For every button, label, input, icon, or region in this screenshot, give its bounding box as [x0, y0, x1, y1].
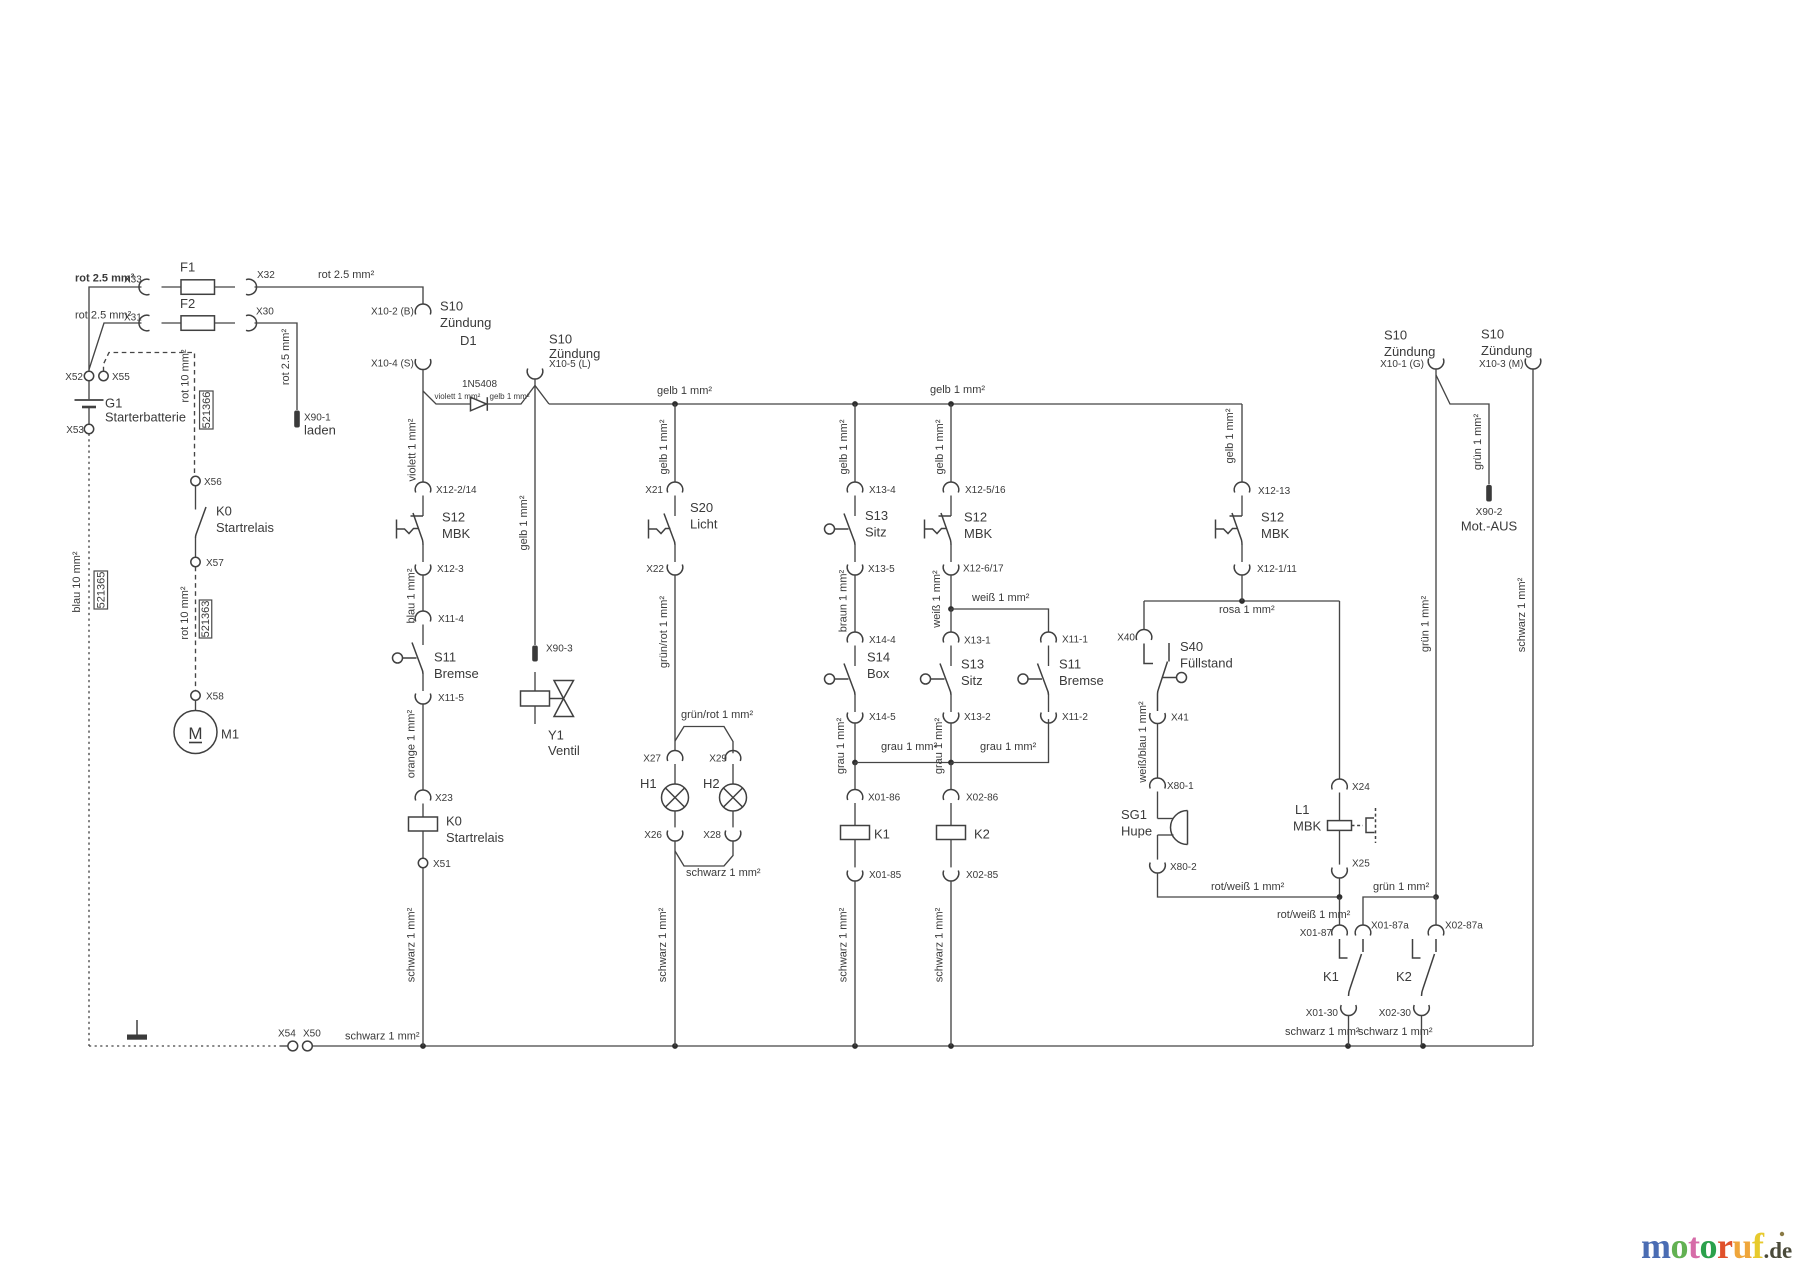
label 521363 — [199, 600, 212, 638]
connector X22 — [667, 565, 683, 576]
connector X58 — [191, 691, 200, 700]
connector X90-1 laden (charge plug) — [294, 411, 300, 428]
svg-text:X12-5/16: X12-5/16 — [965, 485, 1006, 496]
switch blade — [844, 514, 855, 546]
horn SG1 Hupe — [1157, 792, 1159, 819]
wire branch to X29 — [674, 741, 676, 751]
wire grau 1 mm2 — [854, 723, 856, 762]
svg-text:X54: X54 — [278, 1029, 296, 1040]
connector X12-1/11 — [1234, 565, 1250, 576]
svg-text:Sitz: Sitz — [961, 673, 983, 688]
wire — [950, 496, 952, 517]
svg-text:X22: X22 — [646, 564, 664, 575]
svg-text:schwarz 1 mm²: schwarz 1 mm² — [345, 1031, 420, 1043]
wire gelb 1 mm2 to S13 — [854, 404, 856, 482]
svg-text:MBK: MBK — [442, 526, 471, 541]
lamp L1 MBK (indicator) — [1339, 793, 1341, 821]
solenoid valve Y1 Ventil — [521, 691, 550, 706]
wire schwarz 1 mm2 to ground bus — [950, 881, 952, 1046]
svg-text:Licht: Licht — [690, 517, 718, 532]
junction — [1239, 598, 1245, 604]
actuator plunger — [825, 524, 835, 534]
svg-text:laden: laden — [304, 423, 336, 438]
svg-text:S13: S13 — [865, 508, 888, 523]
connector X90-3 — [532, 646, 538, 662]
svg-text:X24: X24 — [1352, 782, 1370, 793]
relay contact K2 — [1413, 939, 1421, 958]
actuator plunger — [1018, 674, 1028, 684]
wire rot/weiss 1 mm2 from horn to K1 87 — [1158, 873, 1340, 897]
connector X51 — [418, 858, 427, 867]
svg-text:X25: X25 — [1352, 859, 1370, 870]
svg-text:weiß/blau 1 mm²: weiß/blau 1 mm² — [1137, 701, 1149, 784]
svg-text:Bremse: Bremse — [434, 666, 479, 681]
wire to junction — [1339, 878, 1341, 897]
svg-text:gelb 1 mm²: gelb 1 mm² — [658, 419, 670, 474]
switch blade — [940, 664, 951, 696]
svg-text:X52: X52 — [65, 372, 83, 383]
wire schwarz 1 mm2 from X28 joining X26 branch — [675, 841, 733, 866]
svg-text:X11-4: X11-4 — [438, 614, 464, 625]
svg-text:X10-1 (G): X10-1 (G) — [1380, 359, 1424, 370]
wire — [950, 646, 952, 667]
svg-text:X30: X30 — [256, 307, 274, 318]
svg-text:X11-2: X11-2 — [1062, 712, 1088, 723]
svg-text:rot 2.5 mm²: rot 2.5 mm² — [318, 269, 375, 281]
svg-text:X01-30: X01-30 — [1306, 1008, 1339, 1019]
connector X25 — [1332, 868, 1348, 879]
svg-text:X21: X21 — [645, 485, 663, 496]
svg-text:X02-87a: X02-87a — [1445, 921, 1483, 932]
wire rot 10 mm2 (dashed) from X55 to starter relay X56 — [104, 353, 195, 475]
wire blau 10 mm2 battery minus (dashed) down to ground bus — [88, 434, 90, 1046]
wire rot 10 mm2 (dashed) from X57 to starter motor X58 — [195, 567, 197, 691]
junction — [420, 1043, 426, 1049]
svg-text:Füllstand: Füllstand — [1180, 656, 1233, 671]
svg-text:rot/weiß 1 mm²: rot/weiß 1 mm² — [1211, 881, 1285, 893]
svg-text:X01-86: X01-86 — [868, 793, 901, 804]
svg-text:X31: X31 — [124, 313, 142, 324]
connector X10-1 (G) — [1428, 359, 1444, 370]
svg-text:X14-4: X14-4 — [869, 635, 896, 646]
connector X11-4 — [415, 611, 431, 622]
svg-text:X13-4: X13-4 — [869, 485, 896, 496]
svg-text:schwarz 1 mm²: schwarz 1 mm² — [934, 907, 946, 982]
svg-text:X12-6/17: X12-6/17 — [963, 564, 1004, 575]
battery G1 Starterbatterie — [84, 371, 93, 380]
svg-text:gelb 1 mm²: gelb 1 mm² — [657, 385, 712, 397]
connector X02-30 — [1414, 1005, 1430, 1016]
svg-text:grün 1 mm²: grün 1 mm² — [1373, 881, 1430, 893]
svg-text:521366: 521366 — [201, 392, 213, 429]
fixed contact stub — [1230, 515, 1243, 517]
connector X13-5 — [847, 565, 863, 576]
svg-text:Zündung: Zündung — [549, 346, 600, 361]
svg-text:weiß 1 mm²: weiß 1 mm² — [931, 570, 943, 629]
junction — [672, 1043, 678, 1049]
svg-text:X02-85: X02-85 — [966, 870, 999, 881]
connector X57 — [191, 557, 200, 566]
svg-text:S40: S40 — [1180, 639, 1203, 654]
svg-text:X01-87: X01-87 — [1300, 928, 1333, 939]
svg-text:X33: X33 — [124, 275, 142, 286]
connector X10-4 (S) from ignition switch S10 — [415, 359, 431, 370]
svg-text:schwarz 1 mm²: schwarz 1 mm² — [406, 907, 418, 982]
connector X23 — [415, 790, 431, 801]
wire schwarz 1 mm2 to ground bus — [422, 868, 424, 1046]
relay contact K0 Startrelais — [195, 486, 197, 510]
svg-text:S12: S12 — [964, 510, 987, 525]
actuator — [396, 520, 398, 539]
svg-text:S12: S12 — [1261, 510, 1284, 525]
svg-text:X12-3: X12-3 — [437, 564, 464, 575]
wire — [1048, 646, 1050, 667]
connector X24 — [1332, 779, 1348, 790]
wire gruen 1 mm2 branch to Mot.-AUS — [1435, 369, 1437, 375]
svg-text:521363: 521363 — [200, 601, 212, 638]
svg-text:F2: F2 — [180, 296, 195, 311]
svg-text:X80-1: X80-1 — [1167, 781, 1194, 792]
connector X01-87a — [1355, 925, 1371, 936]
svg-text:X11-5: X11-5 — [438, 693, 464, 704]
svg-text:schwarz 1 mm²: schwarz 1 mm² — [838, 907, 850, 982]
connector X90-2 Mot.-AUS — [1486, 485, 1492, 502]
wire weiss/blau 1 mm2 — [1157, 724, 1159, 778]
svg-text:Sitz: Sitz — [865, 525, 887, 540]
wire gruen 1 mm2 from X10-1 down — [1435, 375, 1437, 897]
svg-text:1N5408: 1N5408 — [462, 379, 497, 390]
wire — [674, 545, 676, 562]
wire to valve Y1 — [534, 672, 536, 691]
junction — [948, 760, 954, 766]
wire rot/weiss 1 mm2 down to X01-87 — [1339, 897, 1341, 925]
connector X31 — [139, 315, 150, 331]
svg-text:M1: M1 — [221, 727, 239, 742]
junction — [948, 1043, 954, 1049]
fuse F1 — [162, 286, 182, 288]
svg-text:X80-2: X80-2 — [1170, 862, 1197, 873]
svg-text:rot/weiß 1 mm²: rot/weiß 1 mm² — [1277, 909, 1351, 921]
relay coil K1 — [854, 803, 856, 826]
connector X56 — [191, 476, 200, 485]
connector X27 — [667, 750, 683, 761]
svg-text:Bremse: Bremse — [1059, 673, 1104, 688]
junction — [852, 760, 858, 766]
junction rot/weiss — [1337, 894, 1343, 900]
connector X29 — [725, 750, 741, 761]
switch S11 Bremse (brake switch) — [422, 625, 424, 646]
wire rosa 1 mm2 from S12 MBK to S40 and L1 — [1144, 600, 1340, 602]
connector X53 — [84, 424, 93, 433]
connector X01-30 — [1341, 1005, 1357, 1016]
actuator plunger — [825, 674, 835, 684]
svg-text:X13-2: X13-2 — [964, 712, 991, 723]
wire schwarz 1 mm2 to ground bus — [674, 841, 676, 1046]
junction — [948, 401, 954, 407]
svg-text:grün/rot 1 mm²: grün/rot 1 mm² — [658, 596, 670, 668]
wire to K2 coil — [950, 763, 952, 790]
svg-text:X29: X29 — [709, 754, 727, 765]
fuse F2 — [162, 322, 182, 324]
svg-text:X12-13: X12-13 — [1258, 486, 1291, 497]
svg-text:Startrelais: Startrelais — [446, 830, 504, 845]
wire schwarz 1 mm2 to ground bus — [1421, 1016, 1423, 1046]
svg-text:Mot.-AUS: Mot.-AUS — [1461, 519, 1518, 534]
connector X14-4 — [847, 632, 863, 643]
wire schwarz 1 mm2 to ground bus — [1348, 1016, 1350, 1046]
wire — [1241, 496, 1243, 517]
svg-text:S20: S20 — [690, 500, 713, 515]
svg-text:grau 1 mm²: grau 1 mm² — [835, 718, 847, 775]
svg-text:grau 1 mm²: grau 1 mm² — [881, 741, 938, 753]
wire rot 2.5 mm2 from battery X52 diagonal up to fuse F2 row — [89, 323, 142, 370]
connector X32 — [246, 279, 257, 295]
svg-text:S10: S10 — [1481, 327, 1504, 342]
junction — [1420, 1043, 1426, 1049]
wire rosa 1 mm2 corner down to X24 — [1339, 601, 1341, 779]
switch blade — [1232, 513, 1242, 545]
relay contact K1 — [1340, 939, 1348, 958]
switch blade — [1038, 664, 1049, 696]
actuator — [648, 520, 650, 539]
svg-text:X28: X28 — [703, 830, 721, 841]
switch blade — [844, 664, 855, 696]
connector X10-5 (L) ignition switch — [527, 369, 543, 380]
switch S40 Fuellstand (fill level) — [1144, 644, 1153, 664]
svg-text:M: M — [188, 724, 202, 743]
junction — [1345, 1043, 1351, 1049]
svg-text:X02-86: X02-86 — [966, 793, 999, 804]
connector X12-2/14 — [415, 482, 431, 493]
svg-text:X41: X41 — [1171, 713, 1189, 724]
svg-text:K1: K1 — [874, 827, 890, 842]
svg-text:S12: S12 — [442, 510, 465, 525]
svg-text:S10: S10 — [1384, 328, 1407, 343]
svg-text:X56: X56 — [204, 477, 222, 488]
connector X01-85 — [847, 871, 863, 882]
svg-text:H1: H1 — [640, 776, 657, 791]
wire — [1241, 545, 1243, 562]
svg-text:rot 10 mm²: rot 10 mm² — [179, 586, 191, 640]
wire — [854, 545, 856, 562]
svg-text:violett 1 mm²: violett 1 mm² — [435, 392, 481, 401]
junction — [948, 606, 954, 612]
connector X12-6/17 — [943, 565, 959, 576]
ground symbol — [136, 1020, 138, 1035]
svg-text:521365: 521365 — [95, 572, 107, 609]
wire — [422, 496, 424, 517]
connector X41 — [1150, 713, 1166, 724]
svg-text:X32: X32 — [257, 270, 275, 281]
wire grau 1 mm2 over to S11 Bremse X11-2 — [951, 719, 1049, 762]
svg-text:X02-30: X02-30 — [1379, 1008, 1412, 1019]
wire orange 1 mm2 — [422, 704, 424, 790]
svg-text:rot 2.5 mm²: rot 2.5 mm² — [280, 329, 292, 386]
lamp H2 — [732, 764, 734, 784]
connector X01-87 — [1332, 925, 1348, 936]
svg-text:gelb 1 mm²: gelb 1 mm² — [838, 419, 850, 474]
wire schwarz 1 mm2 from X10-3 down to ground bus — [1532, 369, 1534, 1046]
connector X02-87a — [1428, 925, 1444, 936]
svg-text:orange 1 mm²: orange 1 mm² — [406, 709, 418, 778]
svg-text:blau 10 mm²: blau 10 mm² — [71, 551, 83, 612]
wire — [1048, 695, 1050, 712]
wire weiss 1 mm2 over to S11 Bremse branch — [951, 609, 1049, 632]
wire gelb 1 mm2 distribution bus — [549, 403, 1242, 405]
wire to X13-1 — [950, 609, 952, 632]
svg-text:Starterbatterie: Starterbatterie — [105, 410, 186, 425]
svg-text:D1: D1 — [460, 333, 477, 348]
svg-text:X11-1: X11-1 — [1062, 635, 1088, 646]
junction — [852, 401, 858, 407]
actuator — [1215, 520, 1217, 539]
svg-text:X01-85: X01-85 — [869, 870, 902, 881]
svg-text:X40: X40 — [1117, 633, 1135, 644]
wire grau 1 mm2 — [950, 723, 952, 762]
connector X01-86 — [847, 789, 863, 800]
wire gruen down to X02-87a — [1435, 897, 1437, 925]
connector X12-13 — [1234, 482, 1250, 493]
connector X13-4 — [847, 482, 863, 493]
wire rot 2.5 mm2 from battery X52 up to fuse F1 row — [89, 287, 142, 371]
ground bus dotted segment — [89, 1045, 280, 1047]
svg-text:schwarz 1 mm²: schwarz 1 mm² — [686, 867, 761, 879]
connector X30 — [246, 315, 257, 331]
junction — [672, 401, 678, 407]
connector X11-1 — [1041, 632, 1057, 643]
svg-text:grau 1 mm²: grau 1 mm² — [980, 741, 1037, 753]
connector X11-2 — [1041, 713, 1057, 724]
connector X10-3 (M) — [1525, 359, 1541, 370]
svg-text:grün 1 mm²: grün 1 mm² — [1472, 414, 1484, 471]
svg-text:K2: K2 — [1396, 969, 1412, 984]
svg-text:K2: K2 — [974, 827, 990, 842]
wire — [854, 695, 856, 712]
connector X21 — [667, 482, 683, 493]
svg-text:Y1: Y1 — [548, 728, 564, 743]
relay coil K2 — [950, 803, 952, 826]
junction gruen — [1433, 894, 1439, 900]
wire schwarz 1 mm2 ground bus — [312, 1045, 1533, 1047]
svg-text:X12-2/14: X12-2/14 — [436, 485, 477, 496]
wire to K1 coil — [854, 763, 856, 790]
svg-text:X13-1: X13-1 — [964, 636, 991, 647]
wire gelb 1 mm2 down to valve connector X90-3 — [534, 386, 536, 646]
svg-text:SG1: SG1 — [1121, 807, 1147, 822]
connector X26 — [667, 831, 683, 842]
svg-text:violett 1 mm²: violett 1 mm² — [407, 418, 419, 481]
label 521365 — [94, 571, 108, 609]
svg-text:X10-2 (B): X10-2 (B) — [371, 307, 414, 318]
connector X80-1 — [1150, 778, 1166, 789]
actuator plunger — [921, 674, 931, 684]
wire rot 2.5 mm2 from X30 down to charge connector X90-1 — [255, 323, 298, 410]
switch blade — [664, 514, 675, 546]
wire braun 1 mm2 — [854, 575, 856, 632]
svg-text:rosa 1 mm²: rosa 1 mm² — [1219, 604, 1275, 616]
svg-text:X13-5: X13-5 — [868, 564, 895, 575]
svg-text:gelb 1 mm²: gelb 1 mm² — [518, 495, 530, 550]
svg-text:grau 1 mm²: grau 1 mm² — [933, 718, 945, 775]
svg-text:gelb 1 mm²: gelb 1 mm² — [1224, 408, 1236, 463]
wire — [674, 496, 676, 517]
junction — [852, 1043, 858, 1049]
svg-text:S11: S11 — [1059, 657, 1081, 672]
svg-text:gelb 1 mm²: gelb 1 mm² — [930, 384, 985, 396]
connector X54 — [288, 1041, 298, 1051]
svg-text:X51: X51 — [433, 859, 451, 870]
wire weiss 1 mm2 — [950, 575, 952, 609]
connector X02-85 — [943, 871, 959, 882]
svg-text:rot 10 mm²: rot 10 mm² — [180, 349, 192, 403]
connector X10-2 (B) to ignition switch S10 — [415, 304, 431, 315]
relay coil K0 Startrelais — [422, 804, 424, 818]
wire rosa 1 mm2 down to junction — [1241, 575, 1243, 601]
svg-text:motoruf.de: motoruf.de — [1641, 1226, 1792, 1266]
svg-text:schwarz 1 mm²: schwarz 1 mm² — [1516, 577, 1528, 652]
svg-text:K1: K1 — [1323, 969, 1339, 984]
svg-text:schwarz 1 mm²: schwarz 1 mm² — [1285, 1026, 1360, 1038]
connector X50 — [303, 1041, 313, 1051]
svg-text:S10: S10 — [440, 299, 463, 314]
svg-text:X26: X26 — [644, 830, 662, 841]
armature link dashed — [1352, 825, 1364, 827]
connector X12-5/16 — [943, 482, 959, 493]
svg-text:schwarz 1 mm²: schwarz 1 mm² — [657, 907, 669, 982]
motoruf.de logo — [1780, 1232, 1784, 1236]
svg-text:gelb 1 mm²: gelb 1 mm² — [934, 419, 946, 474]
svg-text:L1: L1 — [1295, 802, 1309, 817]
svg-text:weiß 1 mm²: weiß 1 mm² — [971, 592, 1030, 604]
svg-text:X58: X58 — [206, 692, 224, 703]
starter motor M1 — [195, 700, 197, 710]
svg-text:G1: G1 — [105, 396, 122, 411]
svg-text:X53: X53 — [66, 425, 84, 436]
switch blade — [941, 513, 951, 545]
svg-text:X90-3: X90-3 — [546, 644, 573, 655]
svg-text:S10: S10 — [549, 332, 572, 347]
svg-text:braun 1 mm²: braun 1 mm² — [838, 569, 850, 632]
wire violett 1 mm2 down to S12 — [422, 370, 424, 482]
svg-text:Zündung: Zündung — [440, 315, 491, 330]
wire gelb 1 mm2 from bus down to S12 — [1241, 404, 1243, 482]
label 521366 — [200, 391, 214, 429]
wire — [950, 545, 952, 562]
wire grau 1 mm2 to X02 branch — [855, 762, 951, 764]
wire gelb 1 mm2 to S20 — [674, 404, 676, 482]
svg-text:MBK: MBK — [1261, 526, 1290, 541]
connector X13-2 — [943, 713, 959, 724]
svg-text:Ventil: Ventil — [548, 743, 580, 758]
svg-text:X10-3 (M): X10-3 (M) — [1479, 359, 1523, 370]
connector X13-1 — [943, 632, 959, 643]
svg-text:K0: K0 — [216, 504, 232, 519]
svg-text:X57: X57 — [206, 558, 224, 569]
svg-text:Hupe: Hupe — [1121, 824, 1152, 839]
svg-text:S11: S11 — [434, 650, 456, 665]
wire — [854, 496, 856, 517]
svg-text:S14: S14 — [867, 650, 890, 665]
svg-text:X01-87a: X01-87a — [1371, 921, 1409, 932]
wire violett 1 mm2 tap to diode D1 — [423, 391, 471, 404]
wire — [950, 695, 952, 712]
diode D1 1N5408 — [471, 397, 487, 411]
svg-text:X55: X55 — [112, 372, 130, 383]
svg-text:K0: K0 — [446, 814, 462, 829]
wire blau 1 mm2 — [422, 575, 424, 611]
svg-text:Box: Box — [867, 666, 890, 681]
svg-text:Zündung: Zündung — [1481, 343, 1532, 358]
